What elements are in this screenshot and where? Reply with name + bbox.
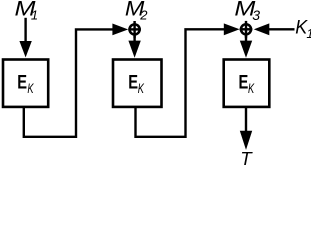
arrowhead into X1 <box>112 24 128 36</box>
block cipher U3 (E_K) <box>224 60 270 107</box>
svg-text:K: K <box>248 80 255 96</box>
XOR gate X1 (before U2) <box>128 21 141 38</box>
label E_K of U1 <box>17 71 34 96</box>
arrow M1 into U1 <box>19 18 31 58</box>
label K1 <box>295 17 313 40</box>
label E_K of U3 <box>239 72 255 97</box>
svg-text:E: E <box>17 71 27 93</box>
wire U3 output down <box>245 107 247 133</box>
svg-text:K: K <box>138 80 145 96</box>
svg-text:2: 2 <box>139 8 148 23</box>
svg-text:K: K <box>27 80 34 96</box>
label M3 <box>234 0 260 23</box>
svg-text:3: 3 <box>252 7 260 23</box>
svg-text:E: E <box>128 72 138 94</box>
svg-text:1: 1 <box>31 8 38 23</box>
XOR gate X2 (before U3) <box>240 21 253 38</box>
wire feedback U2 output to X2 <box>136 29 227 137</box>
block cipher U1 (E_K) <box>3 60 48 107</box>
label M2 <box>125 0 148 23</box>
arrow X2 into U3 <box>240 36 252 58</box>
arrowhead to T <box>240 131 252 150</box>
svg-text:E: E <box>239 72 249 94</box>
wire K1 to X2 with arrow <box>254 23 295 35</box>
svg-text:T: T <box>240 148 253 167</box>
label M1 <box>15 0 39 23</box>
svg-text:1: 1 <box>306 26 311 41</box>
arrow X1 into U2 <box>128 36 140 58</box>
arrowhead into X2 <box>224 23 240 35</box>
label E_K of U2 <box>128 72 144 97</box>
wire feedback U1 output to X1 <box>24 29 115 136</box>
block cipher U2 (E_K) <box>113 60 162 107</box>
